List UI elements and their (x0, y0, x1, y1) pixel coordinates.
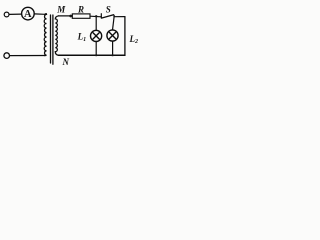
lamp L2 (107, 30, 118, 41)
junction dot L2 bottom (112, 54, 114, 56)
svg-text:L2: L2 (129, 34, 139, 45)
lamp L1 (91, 30, 102, 41)
bottom rail (59, 54, 125, 56)
svg-text:R: R (77, 4, 84, 14)
junction dot L1 top (95, 15, 97, 17)
svg-text:A: A (24, 9, 32, 20)
ammeter A (22, 7, 35, 20)
right side wire down (124, 17, 126, 56)
terminal bottom-left (4, 53, 10, 59)
switch S blade (101, 15, 114, 18)
top rail M to resistor (59, 15, 73, 17)
svg-text:L1: L1 (77, 32, 87, 43)
svg-text:M: M (56, 4, 66, 14)
lamp L2 bottom wire (112, 41, 114, 55)
resistor R (72, 14, 90, 18)
wire ammeter to primary (34, 13, 45, 15)
wire switch to corner (114, 16, 125, 18)
core line left (50, 15, 52, 63)
wire resistor to switch (90, 15, 101, 18)
lamp L2 cross (109, 32, 115, 38)
wire terminal to ammeter (9, 13, 21, 15)
core line right (52, 15, 54, 64)
node M dot (69, 15, 72, 18)
lamp L1 drop wire (95, 16, 97, 30)
svg-text:N: N (62, 57, 70, 67)
svg-text:S: S (106, 5, 111, 15)
wire primary bottom to terminal (10, 55, 45, 57)
switch S left contact (100, 14, 102, 18)
terminal top-left (4, 12, 9, 17)
transformer primary winding (44, 14, 46, 56)
lamp L1 cross (93, 33, 99, 39)
lamp L2 drop wire (113, 17, 115, 30)
transformer secondary winding (55, 16, 58, 55)
junction dot L1 bottom (95, 54, 97, 56)
lamp L1 bottom wire (95, 42, 97, 56)
